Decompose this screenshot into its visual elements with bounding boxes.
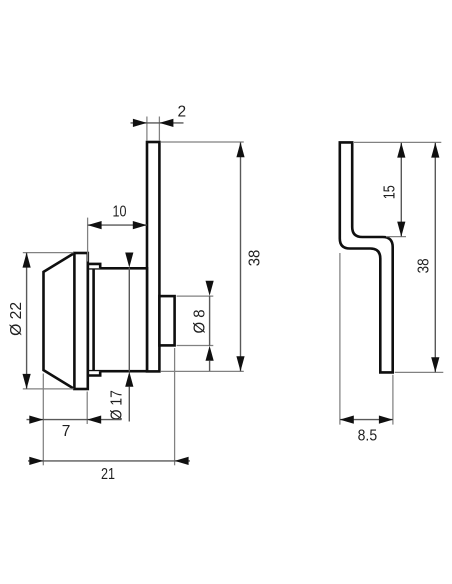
arrow dim15 up	[397, 143, 405, 158]
extension line dim8.5 left	[339, 253, 341, 425]
svg-text:10: 10	[113, 204, 127, 221]
head flange	[74, 253, 87, 389]
arrow dim10 left	[88, 221, 102, 229]
arrow dim38R down	[431, 357, 439, 372]
extension line dim2 right	[158, 117, 160, 141]
dimension line 10	[88, 224, 147, 226]
extension line dim2 left	[146, 117, 148, 141]
arrow dim38L up	[236, 142, 244, 157]
extension line dim21 right	[174, 348, 176, 465]
dimension line 21	[28, 460, 190, 462]
dimension tail dia8 below	[209, 361, 211, 371]
arrow dim2 right	[159, 119, 173, 127]
extension line dim10 left	[87, 218, 89, 262]
extension line dim38 left-view top	[161, 141, 244, 143]
svg-text:2: 2	[177, 103, 186, 120]
extension line dim15 bottom	[386, 236, 406, 238]
extension line dim7 left	[42, 374, 44, 466]
dimension line 2	[131, 122, 184, 124]
dimension line 7	[27, 419, 122, 421]
barrel collar boundary line	[92, 268, 95, 371]
arrow dia17 down	[125, 253, 133, 268]
arrow dim38R up	[431, 143, 439, 158]
arrow dim21 right	[175, 457, 189, 465]
extension line dim38 left-view bottom	[161, 370, 244, 372]
arrow dia22 up	[23, 253, 31, 268]
arrow dim10 right	[133, 221, 147, 229]
dimension line dia22	[26, 253, 28, 389]
extension line dim8.5 right	[392, 375, 394, 425]
lock barrel body	[88, 268, 147, 371]
stop tab top	[88, 264, 100, 268]
svg-text:8.5: 8.5	[358, 428, 378, 445]
dimension line 15	[400, 143, 402, 237]
dimension line dia17 through barrel	[128, 268, 130, 372]
arrow dia8 down	[206, 281, 214, 296]
svg-text:38: 38	[246, 250, 263, 267]
arrow dim38L down	[236, 356, 244, 371]
extension line cam top	[354, 141, 441, 143]
extension line dia22 bottom	[23, 388, 74, 390]
cam strip profile (right view)	[340, 142, 393, 372]
dimension line 38 right view	[434, 143, 436, 373]
svg-text:Ø 17: Ø 17	[108, 390, 125, 420]
arrow dia8 up	[206, 346, 214, 361]
svg-text:15: 15	[382, 185, 399, 199]
nut boss	[159, 296, 174, 345]
arrow dim2 left	[133, 119, 147, 127]
dimension line dia8	[209, 296, 211, 346]
svg-text:21: 21	[101, 466, 115, 483]
arrow dim8.5 left	[340, 416, 354, 424]
arrow dia17 up	[125, 372, 133, 387]
dimension tail dia17 below	[128, 387, 130, 422]
arrow dim7 left	[29, 416, 43, 424]
svg-text:38: 38	[415, 258, 432, 273]
arrow dim21 left	[29, 457, 43, 465]
svg-text:7: 7	[62, 423, 71, 440]
extension line cam bottom	[395, 371, 444, 373]
arrow dim15 down	[397, 222, 405, 237]
extension line dia8 bottom	[177, 345, 214, 347]
extension line dia22 top	[23, 252, 74, 254]
cam plate edge-on (side view flat bar)	[147, 142, 159, 371]
arrow dia22 down	[23, 374, 31, 389]
dimension line 38 left view	[240, 142, 242, 371]
extension line dia8 top	[177, 295, 214, 297]
extension line dim7 right	[86, 392, 88, 425]
stop tab bottom	[88, 371, 100, 375]
head cone	[44, 253, 75, 389]
dimension line 8.5	[340, 419, 393, 421]
svg-text:Ø 22: Ø 22	[8, 302, 25, 336]
arrow dim7 right	[87, 416, 101, 424]
svg-text:Ø 8: Ø 8	[191, 310, 208, 334]
arrow dim8.5 right	[379, 416, 393, 424]
